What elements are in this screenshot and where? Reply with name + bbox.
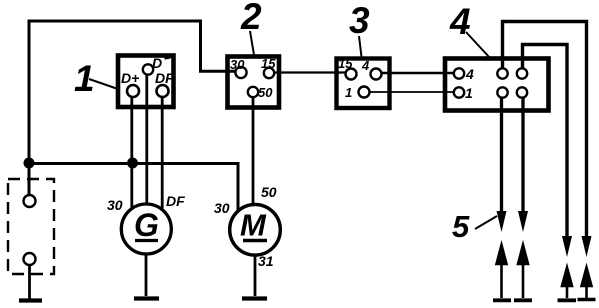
terminal 4 dist circle: [454, 68, 464, 78]
svg-text:5: 5: [452, 209, 470, 244]
svg-text:31: 31: [258, 253, 274, 269]
svg-text:1: 1: [74, 58, 95, 99]
terminal 15 coil circle: [346, 69, 357, 80]
svg-text:15: 15: [261, 56, 276, 71]
leader line 4: [466, 32, 490, 58]
arrowhead HT lead down x587: [582, 236, 592, 257]
wire starter to ground: [254, 255, 257, 297]
distributor box: [445, 59, 549, 111]
svg-text:2: 2: [240, 0, 262, 37]
terminal 1 coil circle: [359, 87, 370, 98]
svg-text:DF: DF: [166, 193, 185, 209]
ground generator: [134, 296, 159, 300]
spark plug arrow up x502: [497, 245, 507, 298]
svg-text:15: 15: [338, 56, 353, 71]
spark plug base x586: [578, 298, 596, 302]
terminal D- circle: [143, 64, 153, 74]
wire generator to ground: [145, 254, 148, 297]
wire distributor right-top HT lead to right: [523, 45, 568, 237]
svg-text:1: 1: [345, 85, 352, 100]
svg-text:30: 30: [230, 57, 245, 72]
generator G circle: [121, 204, 171, 254]
svg-text:DF: DF: [155, 70, 174, 86]
wire main bus from battery+ to starter 30: [29, 164, 238, 212]
wire switch 50 to starter 50: [252, 92, 255, 205]
wire distributor mid-top HT lead to right: [503, 22, 587, 237]
wire distributor mid-bottom HT lead down: [500, 97, 503, 213]
ground battery: [19, 298, 42, 302]
svg-text:4: 4: [465, 66, 474, 82]
arrowhead HT lead down x568: [562, 236, 572, 257]
node junction battery+/bus: [24, 158, 35, 169]
wire distributor right-bottom HT lead down: [521, 97, 524, 213]
svg-text:50: 50: [258, 85, 273, 100]
ignition coil box: [337, 59, 390, 109]
svg-text:30: 30: [107, 197, 123, 213]
wire D+ regulator to generator: [130, 91, 133, 208]
spark plug arrow up x586: [582, 268, 592, 299]
label D- minus stroke: [165, 58, 171, 59]
wire switch to ignition coil (terminal 15): [269, 71, 351, 73]
terminal 4 coil circle: [371, 69, 382, 80]
battery (dashed box): [8, 179, 54, 274]
leader line 1: [89, 79, 118, 89]
wire battery top lead: [28, 163, 31, 195]
terminal D+ circle: [127, 85, 139, 97]
svg-text:50: 50: [261, 184, 277, 200]
svg-text:1: 1: [465, 85, 473, 101]
terminal HT mid-top circle: [497, 68, 507, 78]
leader line 2: [250, 31, 254, 55]
terminal DF circle: [157, 85, 169, 97]
arrowhead HT lead down x522: [518, 211, 528, 232]
wire battery+ riser, top run, drop into switch terminal 30: [29, 21, 241, 165]
terminal HT right-bottom circle: [517, 87, 527, 97]
battery terminal -: [24, 253, 36, 265]
svg-text:4: 4: [449, 1, 471, 42]
svg-text:G: G: [134, 207, 159, 243]
svg-text:30: 30: [214, 200, 230, 216]
leader line 3: [359, 36, 362, 57]
svg-text:3: 3: [349, 0, 370, 41]
regulator box U1: [118, 56, 174, 108]
wire coil 1 to distributor 1: [364, 91, 459, 93]
node junction D+/bus: [127, 158, 138, 169]
wire battery- to ground: [28, 265, 31, 299]
svg-text:D: D: [152, 55, 162, 71]
svg-text:4: 4: [361, 58, 370, 73]
spark plug arrow up x568: [562, 268, 572, 299]
spark plug base x502: [493, 298, 511, 302]
starter underline: [243, 239, 267, 242]
ground starter: [242, 296, 267, 300]
wire coil 4 to distributor 4: [376, 72, 459, 75]
svg-text:D+: D+: [121, 70, 139, 86]
terminal HT mid-bottom circle: [497, 87, 507, 97]
starter M circle: [230, 205, 281, 256]
leader line 5: [475, 216, 497, 229]
terminal 1 dist circle: [454, 87, 464, 97]
arrowhead HT lead down x502: [497, 211, 507, 232]
terminal 50 circle: [248, 87, 258, 97]
terminal 30 circle: [235, 67, 246, 78]
ignition switch box: [228, 57, 280, 108]
svg-text:M: M: [240, 208, 267, 243]
battery terminal +: [24, 195, 36, 207]
spark plug base x522: [514, 298, 532, 302]
wire D- regulator to generator: [145, 70, 148, 205]
wire DF regulator to generator: [161, 91, 164, 209]
spark plug base x568: [558, 298, 577, 302]
generator underline: [135, 239, 158, 242]
spark plug arrow up x522: [518, 245, 528, 298]
terminal HT right-top circle: [517, 68, 527, 78]
terminal 15 circle: [264, 68, 274, 78]
